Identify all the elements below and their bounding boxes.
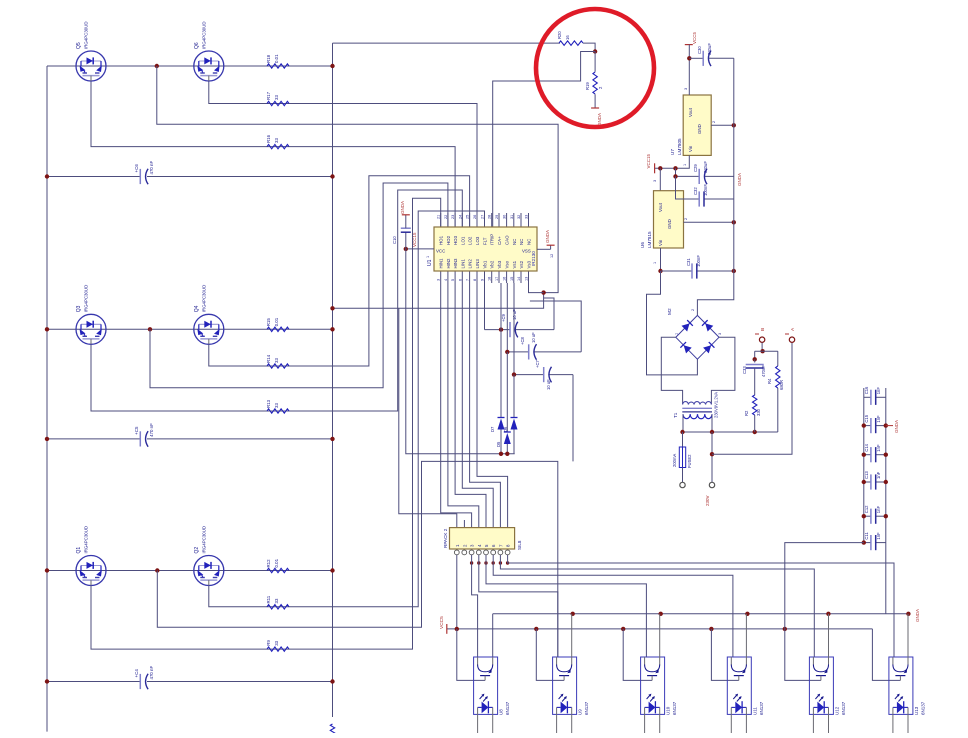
- ground GNDA above C10: [400, 201, 410, 215]
- label Q1: [76, 526, 89, 554]
- svg-text:200mA: 200mA: [672, 454, 677, 467]
- svg-text:GND: GND: [667, 219, 672, 229]
- svg-text:R12: R12: [266, 559, 271, 568]
- resistor R20: [557, 31, 583, 46]
- wire opto base feeds: [457, 629, 901, 681]
- label U9 6N137: [578, 701, 590, 715]
- svg-text:U10: U10: [666, 706, 671, 715]
- svg-text:100nF: 100nF: [703, 184, 708, 196]
- svg-text:22: 22: [444, 215, 448, 219]
- svg-text:R18: R18: [266, 54, 271, 63]
- svg-text:VSS: VSS: [522, 249, 531, 254]
- connector U2 RPACK body: [450, 528, 515, 549]
- svg-text:R11: R11: [266, 595, 271, 603]
- capacitor C14: [864, 443, 881, 462]
- svg-text:33: 33: [274, 598, 279, 603]
- capacitor C4 rail: [45, 679, 335, 683]
- svg-text:2: 2: [684, 218, 688, 220]
- capacitor C30: [697, 43, 712, 66]
- wire D5 chain: [506, 352, 508, 454]
- capacitor C6: [134, 161, 154, 185]
- svg-text:Vb2: Vb2: [490, 260, 495, 268]
- label RPACK 2: [443, 528, 448, 548]
- svg-text:C29: C29: [693, 164, 698, 172]
- svg-text:NC: NC: [519, 239, 524, 245]
- svg-text:R4: R4: [767, 378, 772, 384]
- svg-text:230V9V1.2VA: 230V9V1.2VA: [714, 392, 719, 418]
- svg-text:U8: U8: [499, 709, 504, 715]
- wire C32 branch: [676, 176, 734, 199]
- svg-text:+C8: +C8: [520, 337, 525, 345]
- wire fuse to terminal: [682, 468, 684, 483]
- wire Q5/Q6 collector row y66: [47, 65, 333, 67]
- svg-text:U1: U1: [427, 259, 433, 266]
- svg-text:GNDA: GNDA: [597, 113, 602, 126]
- wire Vb1 C9 row: [485, 283, 555, 330]
- svg-text:4: 4: [444, 279, 448, 281]
- label U7 LM7805: [670, 138, 682, 155]
- capacitor C7: [535, 360, 552, 390]
- svg-text:Q3: Q3: [76, 305, 82, 312]
- svg-text:LIN1: LIN1: [460, 259, 465, 269]
- node U2 pin junction dots: [470, 561, 509, 564]
- transistor Q6: [194, 51, 224, 81]
- node ladder dots: [862, 423, 888, 544]
- wire U7 GND pin2: [711, 121, 734, 125]
- svg-text:Vso: Vso: [505, 260, 510, 268]
- capacitor C13: [864, 471, 881, 490]
- svg-text:15: 15: [510, 277, 514, 281]
- wire U6 Vout pin3: [653, 168, 660, 190]
- svg-text:5: 5: [451, 279, 455, 281]
- svg-text:33: 33: [274, 138, 279, 143]
- svg-text:1: 1: [683, 164, 687, 166]
- terminal 230V: [709, 482, 714, 487]
- svg-text:6N137: 6N137: [584, 701, 589, 715]
- svg-text:6: 6: [458, 279, 462, 281]
- node GNDA rail dots: [571, 612, 911, 616]
- svg-text:HO1: HO1: [439, 235, 444, 245]
- label Q6: [194, 21, 207, 49]
- svg-text:Vout: Vout: [688, 107, 693, 117]
- svg-text:0.01: 0.01: [274, 558, 279, 567]
- node rail/C31: [732, 269, 736, 273]
- svg-text:Vs2: Vs2: [519, 260, 524, 268]
- svg-text:R14: R14: [266, 354, 271, 363]
- optocoupler U13: [889, 657, 913, 733]
- wire C29 branch: [676, 168, 734, 176]
- svg-text:HO3: HO3: [453, 235, 458, 245]
- svg-text:3: 3: [653, 180, 657, 182]
- svg-text:D6: D6: [503, 426, 508, 432]
- terminal fuse: [680, 482, 685, 487]
- net label 230V: [705, 495, 710, 506]
- label U6 LM7815: [640, 231, 652, 248]
- svg-text:R16: R16: [266, 134, 271, 143]
- svg-text:IRG4PC30UD: IRG4PC30UD: [202, 526, 207, 554]
- wire D6 chain: [513, 375, 515, 454]
- svg-text:HIN2: HIN2: [446, 258, 451, 269]
- svg-text:FLT: FLT: [483, 237, 488, 245]
- svg-text:VCC5: VCC5: [439, 616, 445, 629]
- svg-text:Q6: Q6: [194, 42, 200, 49]
- svg-text:R17: R17: [266, 91, 271, 100]
- wire pin28 to VSS node: [529, 283, 544, 293]
- IC U1 pin stubs: [437, 213, 529, 283]
- svg-text:3: 3: [718, 333, 722, 335]
- svg-text:CA+: CA+: [497, 236, 502, 245]
- svg-text:Vb1: Vb1: [483, 260, 488, 268]
- svg-text:8: 8: [473, 279, 477, 281]
- svg-text:NC: NC: [512, 239, 517, 245]
- svg-text:LM7815: LM7815: [647, 231, 652, 248]
- svg-text:1: 1: [653, 262, 657, 264]
- resistor R8 bottom edge: [330, 724, 334, 738]
- svg-text:D5: D5: [496, 441, 501, 447]
- svg-text:C33: C33: [742, 366, 747, 374]
- wire Q6 emitter to R17 row: [209, 82, 477, 228]
- svg-text:6N137: 6N137: [920, 701, 925, 715]
- svg-text:+C5: +C5: [134, 426, 139, 435]
- svg-text:U9: U9: [578, 709, 583, 715]
- svg-text:1: 1: [675, 333, 679, 335]
- wire U1 VCC pin: [406, 249, 434, 258]
- wire U1 to U2 staircase: [441, 283, 508, 528]
- wire Q5/Q6 midpoint branch: [157, 66, 558, 293]
- svg-text:33: 33: [274, 95, 279, 100]
- svg-text:GND: GND: [697, 124, 702, 134]
- wire R2 to rail: [754, 415, 756, 432]
- resistor R17: [266, 91, 289, 105]
- junction dots row y329: [45, 327, 335, 331]
- svg-text:3: 3: [437, 279, 441, 281]
- power GNDA rail: [493, 614, 909, 657]
- wire Q2 emitter to R11 row: [209, 211, 485, 607]
- wire Q1/Q2 collector row y570: [47, 570, 333, 572]
- svg-text:C13: C13: [864, 471, 869, 479]
- transistor Q3: [76, 314, 106, 344]
- svg-text:IRG4PC30UD: IRG4PC30UD: [84, 285, 89, 313]
- junction dots row y66: [155, 64, 335, 68]
- capacitor C12: [864, 505, 881, 524]
- ground GNDA below R19: [591, 108, 602, 126]
- svg-text:Vout: Vout: [658, 202, 663, 212]
- label Q3: [76, 285, 89, 313]
- capacitor C9: [501, 309, 518, 338]
- svg-text:C30: C30: [697, 46, 702, 54]
- node VCC5/C30: [687, 56, 691, 60]
- label T1: [673, 392, 719, 418]
- svg-text:12: 12: [550, 254, 554, 258]
- svg-text:17: 17: [495, 277, 499, 281]
- svg-text:U6: U6: [640, 242, 645, 248]
- wire U7 Vout pin3: [684, 58, 689, 95]
- svg-text:470 nF: 470 nF: [149, 423, 154, 437]
- diode D7: [490, 418, 505, 433]
- svg-text:VCC15: VCC15: [412, 232, 417, 247]
- wire secondary rail: [683, 431, 778, 433]
- svg-text:29: 29: [495, 215, 499, 219]
- svg-text:27: 27: [481, 215, 485, 219]
- svg-text:Vs1: Vs1: [512, 260, 517, 268]
- capacitor C32: [693, 184, 708, 207]
- svg-text:IRG4PC30UD: IRG4PC30UD: [202, 21, 207, 49]
- wire ladder cap rows: [864, 397, 886, 542]
- svg-text:T1: T1: [673, 412, 678, 418]
- regulator U6 LM7815 body: [654, 191, 684, 248]
- svg-text:1nF: 1nF: [876, 387, 881, 395]
- svg-text:1nF: 1nF: [876, 471, 881, 479]
- svg-text:30: 30: [503, 215, 507, 219]
- svg-text:LO2: LO2: [468, 236, 473, 245]
- wire U2 pin1 up: [399, 308, 457, 528]
- resistor R4: [767, 366, 784, 390]
- svg-text:33: 33: [274, 358, 279, 363]
- wire opto emitters to GNDA rail: [572, 614, 908, 657]
- resistor R15: [266, 317, 289, 331]
- node B junction: [760, 349, 764, 353]
- svg-text:C16: C16: [864, 386, 869, 394]
- svg-text:R19: R19: [585, 82, 590, 90]
- node C33 top: [753, 357, 757, 361]
- wire 230V branch: [711, 432, 713, 482]
- svg-text:C10: C10: [392, 236, 397, 244]
- label M2: [667, 308, 673, 315]
- wire Vb3 C7 row: [514, 283, 573, 461]
- diode D5: [496, 432, 511, 447]
- svg-text:2: 2: [691, 309, 695, 311]
- svg-text:680R: 680R: [779, 380, 784, 390]
- svg-text:HO2: HO2: [446, 235, 451, 245]
- svg-text:28: 28: [488, 215, 492, 219]
- wire R20 to node: [583, 43, 595, 51]
- svg-text:IRG4PC30UD: IRG4PC30UD: [84, 526, 89, 554]
- wire B down: [761, 343, 763, 352]
- svg-text:Q2: Q2: [194, 547, 200, 554]
- svg-text:13: 13: [525, 277, 529, 281]
- node R20/R19 junction: [593, 49, 597, 53]
- svg-text:Vb3: Vb3: [497, 260, 502, 268]
- svg-text:Q5: Q5: [76, 42, 82, 49]
- ground GNDA ladder: [886, 420, 899, 433]
- wire T1 secondary stubs: [683, 414, 712, 432]
- wire U6 GND pin2: [684, 218, 734, 222]
- svg-text:U11: U11: [752, 707, 757, 715]
- wire R4 branch: [777, 351, 779, 366]
- label U1: [427, 259, 433, 266]
- svg-text:U12: U12: [834, 706, 839, 715]
- svg-text:R15: R15: [266, 318, 271, 327]
- svg-text:Q4: Q4: [194, 305, 200, 312]
- transistor Q5: [76, 51, 106, 81]
- wire ladder right rail: [885, 388, 887, 614]
- svg-text:1nF: 1nF: [876, 532, 881, 540]
- wire Q3/Q4 midpoint branch: [150, 183, 448, 388]
- capacitor C11: [864, 532, 881, 551]
- svg-text:9: 9: [481, 279, 485, 281]
- svg-text:33: 33: [274, 403, 279, 408]
- transistor Q2: [194, 556, 224, 586]
- node VCC15 junctions: [658, 166, 678, 170]
- svg-text:16: 16: [565, 35, 570, 40]
- svg-text:Vin: Vin: [658, 239, 663, 246]
- svg-text:220uF: 220uF: [707, 43, 712, 55]
- optocoupler U11: [727, 657, 751, 733]
- optocoupler U8: [474, 657, 498, 733]
- svg-text:RPACK 2: RPACK 2: [443, 528, 448, 548]
- wire Q1/Q2 midpoint branch: [157, 461, 558, 657]
- transistor Q1: [76, 556, 106, 586]
- capacitor C6 rail: [45, 174, 335, 178]
- capacitor C15: [864, 414, 881, 433]
- svg-text:1nF: 1nF: [876, 506, 881, 514]
- svg-text:LIN3: LIN3: [475, 259, 480, 269]
- power VCC5 rail: [439, 616, 872, 634]
- wire C31 row: [661, 270, 734, 272]
- svg-text:Vin: Vin: [688, 145, 693, 152]
- svg-text:18: 18: [488, 277, 492, 281]
- svg-text:25: 25: [466, 215, 470, 219]
- wire rail to bridge: [697, 271, 733, 315]
- node 230V junction: [710, 452, 714, 456]
- svg-text:Q1: Q1: [76, 547, 82, 554]
- op-amp U1 IR2130 body: [434, 227, 537, 271]
- wire bridge AC left: [661, 337, 682, 404]
- svg-text:+C9: +C9: [501, 314, 506, 322]
- node C9/D7: [499, 327, 503, 331]
- capacitor C33: [742, 359, 766, 395]
- svg-text:6N137: 6N137: [759, 701, 764, 715]
- label U13 6N137: [914, 701, 926, 715]
- svg-text:33: 33: [274, 640, 279, 645]
- node C8/D5: [505, 350, 509, 354]
- wire VSS bus: [333, 293, 544, 309]
- capacitor C4: [134, 666, 154, 690]
- power VCC15 bar: [646, 153, 655, 173]
- label Q5: [76, 21, 89, 49]
- wire x332 vertical bus: [332, 43, 334, 717]
- diode D6: [503, 418, 518, 433]
- label U12 6N137: [834, 701, 846, 715]
- svg-text:7: 7: [466, 279, 470, 281]
- power VCC5 top: [685, 31, 697, 58]
- optocoupler U9: [553, 657, 577, 733]
- resistor R16: [266, 134, 289, 148]
- resistor R12: [266, 558, 289, 572]
- wire R4 to rail: [777, 388, 779, 432]
- label U8 6N137: [499, 701, 511, 715]
- svg-text:U13: U13: [914, 706, 919, 715]
- svg-text:6N137: 6N137: [841, 701, 846, 715]
- svg-text:C11: C11: [864, 532, 869, 540]
- svg-text:M2: M2: [667, 308, 673, 315]
- node secondary rail dots: [680, 430, 757, 434]
- junction dots row y570: [45, 568, 335, 572]
- resistor R13: [266, 399, 289, 413]
- node diode feed junctions: [499, 452, 510, 456]
- resistor R2: [744, 395, 761, 416]
- node C7/D6: [512, 372, 516, 376]
- svg-text:C15: C15: [864, 414, 869, 422]
- svg-text:220uF: 220uF: [703, 161, 708, 173]
- net label GNDA at rail: [737, 173, 742, 186]
- highlight red ellipse: [536, 9, 654, 127]
- svg-text:VCC15: VCC15: [646, 153, 651, 168]
- transformer T1: [682, 402, 712, 419]
- svg-text:21: 21: [437, 215, 441, 219]
- svg-text:31: 31: [510, 215, 514, 219]
- svg-text:R2: R2: [744, 410, 749, 416]
- regulator U7 LM7805 body: [683, 95, 711, 155]
- svg-text:6N137: 6N137: [505, 701, 510, 715]
- svg-text:GNDA: GNDA: [737, 173, 742, 186]
- svg-text:32: 32: [517, 215, 521, 219]
- svg-text:10 uF: 10 uF: [546, 379, 551, 390]
- svg-text:B: B: [760, 328, 766, 331]
- wire U2 pin1 to VCC5 rail: [456, 555, 458, 629]
- svg-text:FUSE2: FUSE2: [687, 454, 692, 468]
- svg-text:VCC5: VCC5: [692, 31, 697, 44]
- wire U6 Vin to bridge +: [647, 271, 698, 375]
- svg-text:GNDA: GNDA: [400, 201, 405, 214]
- svg-text:+C7: +C7: [535, 360, 540, 368]
- capacitor C31: [686, 255, 701, 279]
- resistor R19: [585, 72, 603, 94]
- terminal B: [755, 328, 766, 343]
- wire Q3 emitter to R13 row: [91, 190, 462, 411]
- node VCC5 rail dots: [455, 627, 787, 631]
- svg-text:GNDA: GNDA: [915, 609, 920, 622]
- svg-text:470nF: 470nF: [761, 365, 766, 377]
- wire left vertical rail: [46, 66, 48, 732]
- svg-text:0.01: 0.01: [274, 317, 279, 326]
- svg-text:2: 2: [712, 121, 716, 123]
- svg-text:10 uF: 10 uF: [531, 332, 536, 343]
- connector U2 pin pads: [454, 550, 510, 555]
- svg-text:3: 3: [684, 88, 688, 90]
- svg-text:R13: R13: [266, 399, 271, 408]
- wire A to secondary: [712, 343, 792, 454]
- wire to fuse: [682, 432, 684, 447]
- svg-text:R9: R9: [266, 640, 271, 646]
- wire Q5 emitter to R16 row: [91, 82, 455, 228]
- resistor R9: [266, 640, 289, 652]
- svg-text:1nF: 1nF: [876, 444, 881, 452]
- svg-text:C31: C31: [686, 258, 691, 266]
- svg-text:C14: C14: [864, 443, 869, 451]
- svg-text:C12: C12: [864, 505, 869, 513]
- wire U1 VSS pin: [537, 249, 554, 258]
- wire U2 pin3 to U8: [472, 555, 478, 657]
- svg-text:100nF: 100nF: [696, 255, 701, 267]
- capacitor C8: [520, 332, 537, 360]
- bridge rectifier M2: [676, 315, 719, 359]
- svg-text:SIL8: SIL8: [517, 540, 522, 550]
- wire ladder to VCC5 rail: [785, 543, 864, 629]
- wire to R20: [333, 42, 561, 44]
- svg-text:+C6: +C6: [134, 164, 139, 173]
- label U11 6N137: [752, 701, 764, 715]
- capacitor C5: [134, 423, 154, 447]
- node C29 tee: [673, 174, 677, 178]
- svg-text:IRG4PC30UD: IRG4PC30UD: [84, 21, 89, 49]
- node VCC15 at C10: [404, 247, 408, 251]
- svg-text:LIN2: LIN2: [468, 259, 473, 269]
- svg-text:D7: D7: [490, 426, 495, 432]
- resistor R14: [266, 354, 289, 368]
- wire B node row: [755, 351, 778, 359]
- ground GNDA at VSS: [545, 230, 555, 249]
